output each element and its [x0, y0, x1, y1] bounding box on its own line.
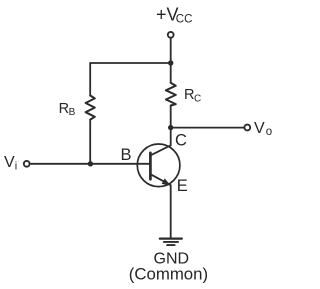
emitter arrowhead	[162, 178, 171, 185]
Vi terminal	[24, 161, 30, 167]
Vo terminal	[244, 125, 250, 131]
svg-text:CC: CC	[176, 14, 193, 26]
wire RC lower lead	[170, 106, 172, 128]
wire left rail upper	[89, 63, 91, 96]
resistor RB	[86, 96, 95, 120]
junction base node	[88, 161, 93, 166]
wire collector lead	[170, 128, 172, 146]
transistor base bar	[149, 153, 152, 180]
svg-text:E: E	[177, 177, 188, 195]
svg-text:C: C	[194, 93, 201, 104]
svg-text:R: R	[184, 87, 194, 103]
svg-text:R: R	[59, 101, 69, 117]
wire VCC to top junction	[170, 38, 172, 63]
svg-text:(Common): (Common)	[129, 265, 208, 284]
transistor emitter stroke	[150, 174, 170, 185]
ground	[160, 238, 182, 240]
svg-text:B: B	[69, 107, 76, 118]
wire emitter lead	[170, 185, 172, 238]
svg-text:V: V	[254, 120, 265, 137]
junction top	[168, 60, 173, 65]
wire to Vo	[171, 127, 245, 129]
svg-text:V: V	[4, 154, 15, 171]
wire left rail lower	[89, 120, 91, 164]
wire base lead	[30, 163, 151, 165]
VCC terminal	[168, 32, 174, 38]
svg-text:o: o	[266, 126, 272, 138]
transistor collector stroke	[150, 145, 170, 155]
wire top horizontal	[90, 62, 171, 64]
svg-text:C: C	[175, 131, 187, 149]
svg-text:B: B	[121, 146, 132, 164]
junction collector node	[168, 125, 173, 130]
wire RC upper lead	[170, 63, 172, 83]
svg-text:i: i	[15, 160, 17, 172]
transistor Q1	[137, 144, 180, 187]
resistor RC	[166, 83, 176, 106]
